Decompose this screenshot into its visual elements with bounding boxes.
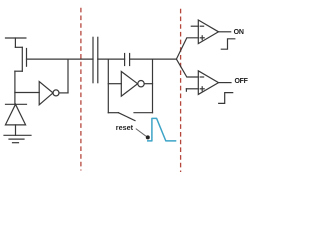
svg-text:ON: ON: [234, 29, 244, 36]
svg-text:reset: reset: [116, 123, 134, 132]
svg-text:OFF: OFF: [235, 78, 249, 85]
